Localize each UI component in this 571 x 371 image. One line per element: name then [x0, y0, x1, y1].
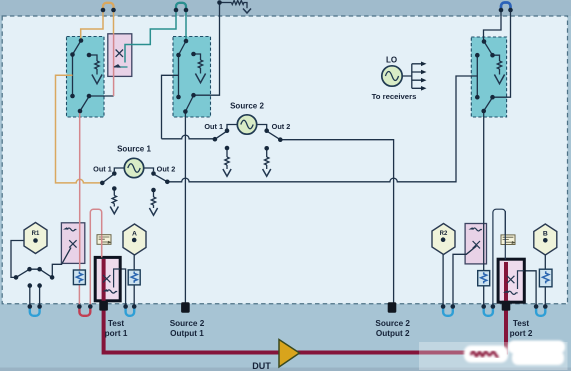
svg-text:R2: R2 [440, 231, 448, 237]
svg-text:port 2: port 2 [510, 329, 533, 338]
svg-text:R1: R1 [32, 231, 40, 237]
svg-text:Source 2: Source 2 [375, 319, 410, 328]
svg-text:Out 2: Out 2 [272, 122, 291, 131]
svg-text:DUT: DUT [252, 361, 271, 371]
svg-text:Out 1: Out 1 [93, 164, 112, 173]
svg-text:Out 2: Out 2 [157, 164, 176, 173]
svg-text:To receivers: To receivers [372, 92, 417, 101]
svg-text:Test: Test [513, 319, 529, 328]
svg-text:Output 1: Output 1 [170, 329, 204, 338]
svg-text:Out 1: Out 1 [204, 122, 223, 131]
svg-text:Source 2: Source 2 [170, 319, 205, 328]
svg-text:port 1: port 1 [105, 329, 128, 338]
svg-text:Source 1: Source 1 [117, 145, 151, 154]
svg-text:Source 2: Source 2 [230, 101, 264, 110]
svg-text:Test: Test [108, 319, 124, 328]
svg-text:B: B [543, 231, 548, 238]
svg-text:A: A [132, 231, 137, 238]
svg-text:LO: LO [386, 56, 397, 65]
svg-text:Output 2: Output 2 [376, 329, 410, 338]
